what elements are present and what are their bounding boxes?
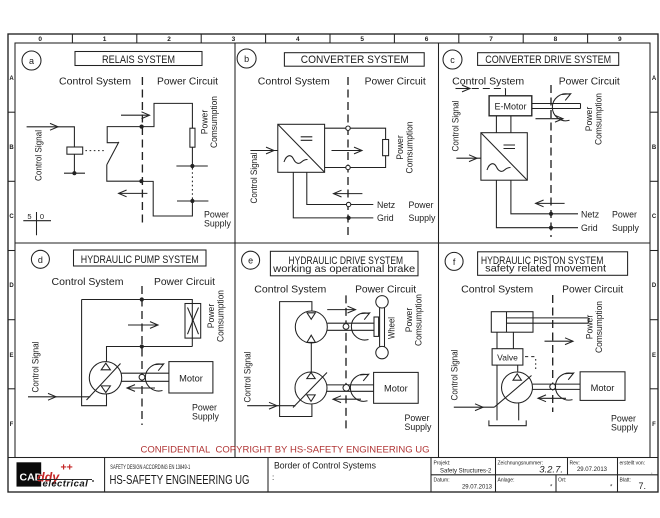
svg-text:0: 0 — [40, 212, 44, 221]
svg-text:Power: Power — [585, 315, 595, 340]
svg-text:Control System: Control System — [258, 77, 330, 88]
svg-text:Blatt:: Blatt: — [620, 478, 631, 484]
svg-text:Power Circuit: Power Circuit — [365, 77, 426, 88]
svg-text:Supply: Supply — [612, 223, 639, 233]
svg-text:Netz: Netz — [581, 209, 599, 219]
svg-text:D: D — [652, 283, 657, 289]
svg-text:CONVERTER SYSTEM: CONVERTER SYSTEM — [301, 54, 409, 66]
svg-text:7: 7 — [489, 36, 493, 43]
svg-text:Control Signal: Control Signal — [34, 130, 44, 181]
svg-text:Power: Power — [612, 209, 637, 219]
svg-text:E-Motor: E-Motor — [494, 102, 526, 112]
svg-text:e: e — [248, 256, 253, 266]
svg-text:Comsumption: Comsumption — [594, 93, 604, 145]
svg-text:erstellt von:: erstellt von: — [620, 461, 646, 467]
svg-text:Power: Power — [206, 304, 216, 329]
svg-text:C: C — [9, 214, 14, 220]
svg-text:Power Circuit: Power Circuit — [562, 285, 623, 296]
svg-text:Supply: Supply — [204, 219, 231, 229]
svg-text:++: ++ — [61, 462, 73, 474]
svg-text:Anlage:: Anlage: — [498, 478, 515, 484]
svg-text:D: D — [9, 283, 14, 289]
svg-text:Motor: Motor — [179, 374, 203, 384]
svg-text:2: 2 — [167, 36, 171, 43]
svg-text:Power: Power — [200, 110, 210, 135]
svg-text:Motor: Motor — [384, 383, 408, 393]
svg-text::: : — [272, 473, 274, 482]
svg-text:CONFIDENTIAL COPYRIGHT BY HS-: CONFIDENTIAL COPYRIGHT BY HS-SAFETY ENGI… — [141, 444, 430, 455]
svg-text:Power Circuit: Power Circuit — [355, 285, 416, 296]
svg-text:Valve: Valve — [497, 353, 518, 363]
svg-text:A: A — [652, 76, 657, 82]
svg-text:3.2.7.: 3.2.7. — [539, 465, 563, 476]
svg-text:Control System: Control System — [461, 285, 533, 296]
svg-text:Comsumption: Comsumption — [405, 121, 415, 173]
svg-text:a: a — [29, 56, 34, 66]
svg-text:Supply: Supply — [611, 423, 638, 433]
svg-text:Wheel: Wheel — [387, 317, 397, 339]
svg-text:Safety Structures-2: Safety Structures-2 — [440, 469, 492, 475]
svg-text:HYDRAULIC PUMP SYSTEM: HYDRAULIC PUMP SYSTEM — [81, 254, 199, 266]
svg-text:Power Circuit: Power Circuit — [157, 77, 218, 88]
svg-text:Control System: Control System — [52, 277, 124, 288]
svg-text:B: B — [9, 145, 14, 151]
svg-text:E: E — [9, 353, 13, 359]
svg-text:Ort:: Ort: — [558, 478, 566, 484]
svg-text:A: A — [9, 76, 14, 82]
svg-text:Power: Power — [395, 135, 405, 160]
svg-text:Comsumption: Comsumption — [594, 301, 604, 353]
svg-text:Datum:: Datum: — [434, 478, 450, 484]
svg-text:Border of Control Systems: Border of Control Systems — [274, 461, 377, 471]
svg-text:Power: Power — [584, 107, 594, 132]
svg-text:0: 0 — [38, 36, 42, 43]
svg-text:E: E — [652, 353, 656, 359]
svg-text:Power: Power — [404, 308, 414, 333]
svg-text:d: d — [38, 255, 43, 265]
svg-text:4: 4 — [296, 36, 300, 43]
svg-text:c: c — [450, 55, 455, 65]
svg-text:b: b — [244, 54, 249, 64]
svg-text:Control Signal: Control Signal — [31, 341, 41, 392]
svg-text:9: 9 — [618, 36, 622, 43]
svg-text:7.: 7. — [638, 481, 646, 491]
svg-text:29.07.2013: 29.07.2013 — [577, 467, 608, 473]
svg-text:Control System: Control System — [254, 285, 326, 296]
svg-text:HS-SAFETY ENGINEERING UG: HS-SAFETY ENGINEERING UG — [110, 473, 250, 487]
svg-text:Zeichnungsnummer:: Zeichnungsnummer: — [498, 461, 544, 467]
svg-text:29.07.2013: 29.07.2013 — [462, 485, 493, 491]
svg-text:Control Signal: Control Signal — [249, 152, 259, 203]
svg-text:Comsumption: Comsumption — [216, 290, 226, 342]
svg-text:8: 8 — [554, 36, 558, 43]
svg-text:B: B — [652, 145, 657, 151]
svg-text:working as operational brake: working as operational brake — [272, 263, 415, 275]
svg-text:Control Signal: Control Signal — [451, 100, 461, 151]
svg-text:Rev:: Rev: — [570, 461, 580, 467]
svg-text:6: 6 — [425, 36, 429, 43]
svg-text:C: C — [652, 214, 657, 220]
svg-text:Grid: Grid — [581, 223, 598, 233]
svg-text:Comsumption: Comsumption — [209, 96, 219, 148]
svg-text:F: F — [10, 422, 14, 428]
svg-text:Motor: Motor — [591, 383, 615, 393]
svg-text:Netz: Netz — [377, 200, 395, 210]
svg-text:Control Signal: Control Signal — [450, 349, 460, 400]
svg-text:Comsumption: Comsumption — [414, 294, 424, 346]
svg-text:5: 5 — [360, 36, 364, 43]
svg-text:3: 3 — [232, 36, 236, 43]
svg-text:5: 5 — [27, 212, 31, 221]
svg-text:Projekt:: Projekt: — [434, 461, 451, 467]
svg-text:RELAIS SYSTEM: RELAIS SYSTEM — [102, 54, 175, 66]
svg-text:Supply: Supply — [405, 422, 432, 432]
svg-text:Control System: Control System — [59, 77, 131, 88]
svg-text:Supply: Supply — [192, 412, 219, 422]
svg-text:Grid: Grid — [377, 213, 394, 223]
svg-text:safety related movement: safety related movement — [485, 262, 606, 274]
svg-text:CONVERTER DRIVE SYSTEM: CONVERTER DRIVE SYSTEM — [485, 54, 611, 66]
svg-text:F: F — [652, 422, 656, 428]
svg-text:Power Circuit: Power Circuit — [559, 77, 620, 88]
svg-text:Control Signal: Control Signal — [243, 351, 253, 402]
svg-text:electrical: electrical — [43, 479, 89, 490]
svg-text:1: 1 — [103, 36, 107, 43]
svg-text:Supply: Supply — [409, 213, 436, 223]
svg-text:SAFETY DESIGN ACCORDING EN 138: SAFETY DESIGN ACCORDING EN 13849-1 — [110, 464, 190, 471]
svg-text:Power: Power — [409, 200, 434, 210]
svg-text:Power Circuit: Power Circuit — [154, 277, 215, 288]
